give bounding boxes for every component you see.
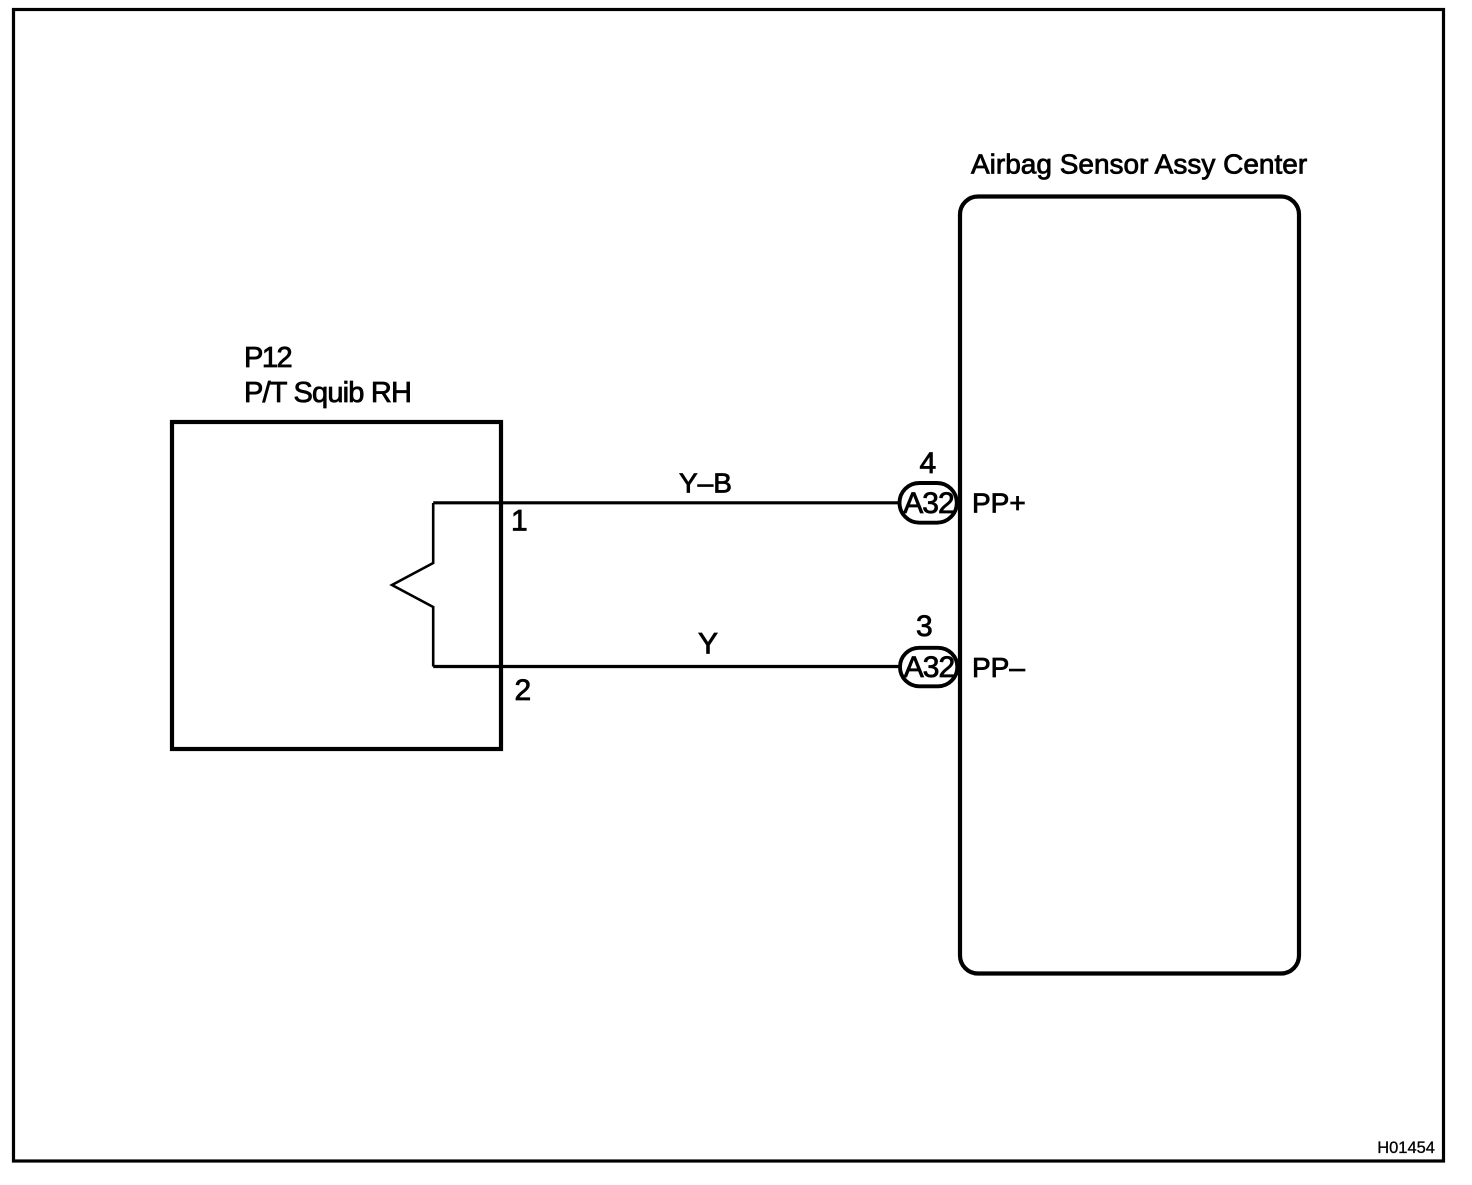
- svg-text:3: 3: [916, 610, 933, 643]
- Airbag Sensor Assy Center box: [960, 197, 1299, 974]
- svg-text:Y–B: Y–B: [679, 468, 732, 499]
- connector oval A32 pin 4: [900, 483, 957, 523]
- svg-text:Y: Y: [698, 628, 718, 661]
- svg-text:1: 1: [511, 505, 528, 538]
- connector oval A32 pin 3: [900, 648, 957, 687]
- svg-text:H01454: H01454: [1377, 1139, 1435, 1157]
- svg-text:A32: A32: [904, 651, 955, 684]
- wire Y-B pin1 to pin4: [433, 501, 899, 504]
- svg-text:A32: A32: [903, 487, 954, 520]
- svg-text:2: 2: [515, 674, 532, 707]
- svg-text:PP+: PP+: [972, 488, 1026, 519]
- svg-text:Airbag Sensor Assy Center: Airbag Sensor Assy Center: [971, 149, 1307, 180]
- connector bracket (squib symbol): [392, 503, 433, 667]
- svg-text:P/T Squib RH: P/T Squib RH: [244, 377, 411, 409]
- svg-text:P12: P12: [244, 342, 291, 374]
- svg-text:4: 4: [920, 447, 937, 480]
- svg-text:PP–: PP–: [972, 652, 1025, 683]
- component box P12 P/T Squib RH: [172, 422, 501, 749]
- wire Y pin2 to pin3: [433, 665, 899, 668]
